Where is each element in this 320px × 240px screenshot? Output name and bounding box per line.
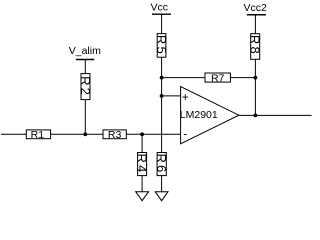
svg-text:R1: R1 <box>31 129 45 141</box>
svg-text:-: - <box>183 126 187 140</box>
junction node A (R2 / main wire) <box>83 132 87 136</box>
svg-text:R8: R8 <box>248 35 263 56</box>
wire R3 to inverting input <box>126 133 180 135</box>
junction node F (output) <box>254 114 258 118</box>
ground symbol below R4 <box>136 192 149 201</box>
wire Vcc2 bar to R8 <box>254 15 256 34</box>
wire R8 down to output node F <box>254 59 256 115</box>
resistor R3 body <box>103 130 126 139</box>
svg-text:R4: R4 <box>135 153 150 174</box>
wire R6 to ground <box>161 176 163 193</box>
svg-text:+: + <box>182 90 189 104</box>
wire output <box>239 114 312 116</box>
ground symbol below R6 <box>155 192 168 201</box>
junction node E (R7 / R8) <box>254 76 258 80</box>
wire R4 to ground <box>141 176 143 193</box>
svg-text:V_alim: V_alim <box>69 45 101 57</box>
svg-text:R7: R7 <box>211 72 225 84</box>
svg-text:LM2901: LM2901 <box>180 109 218 121</box>
resistor R7 body <box>205 73 230 82</box>
supply bar V_alim <box>76 59 94 61</box>
svg-text:R3: R3 <box>108 129 122 141</box>
wire Vcc bar to R5 <box>161 14 163 33</box>
wire node D to non-inverting input <box>162 95 181 97</box>
wire node C to R7 <box>162 77 205 79</box>
supply bar Vcc2 <box>247 14 266 16</box>
svg-text:Vcc: Vcc <box>150 2 168 14</box>
op-amp U1 LM2901 body <box>181 87 239 144</box>
resistor R4 body <box>138 153 147 176</box>
junction node C (R5 / R7) <box>160 76 164 80</box>
resistor R8 body <box>251 34 260 60</box>
resistor R2 body <box>81 74 90 100</box>
junction node D (non-inverting input) <box>160 94 164 98</box>
svg-text:Vcc2: Vcc2 <box>244 2 268 14</box>
wire R7 to node E <box>230 77 255 79</box>
svg-text:R5: R5 <box>154 35 169 56</box>
wire input left segment <box>1 133 26 135</box>
wire R1 to R3 <box>51 133 103 135</box>
resistor R6 body <box>157 153 166 176</box>
resistor R1 body <box>26 130 50 139</box>
wire node B to R4 <box>141 134 143 152</box>
wire R5 down through R7 node and + node to R6 <box>161 57 163 152</box>
supply bar Vcc <box>152 13 171 15</box>
junction node B (R4 / main wire) <box>140 132 144 136</box>
wire R2 to node A <box>84 100 86 135</box>
svg-text:R2: R2 <box>78 76 93 97</box>
svg-text:R6: R6 <box>154 153 169 174</box>
resistor R5 body <box>157 34 166 58</box>
wire V_alim bar to R2 <box>84 60 86 74</box>
